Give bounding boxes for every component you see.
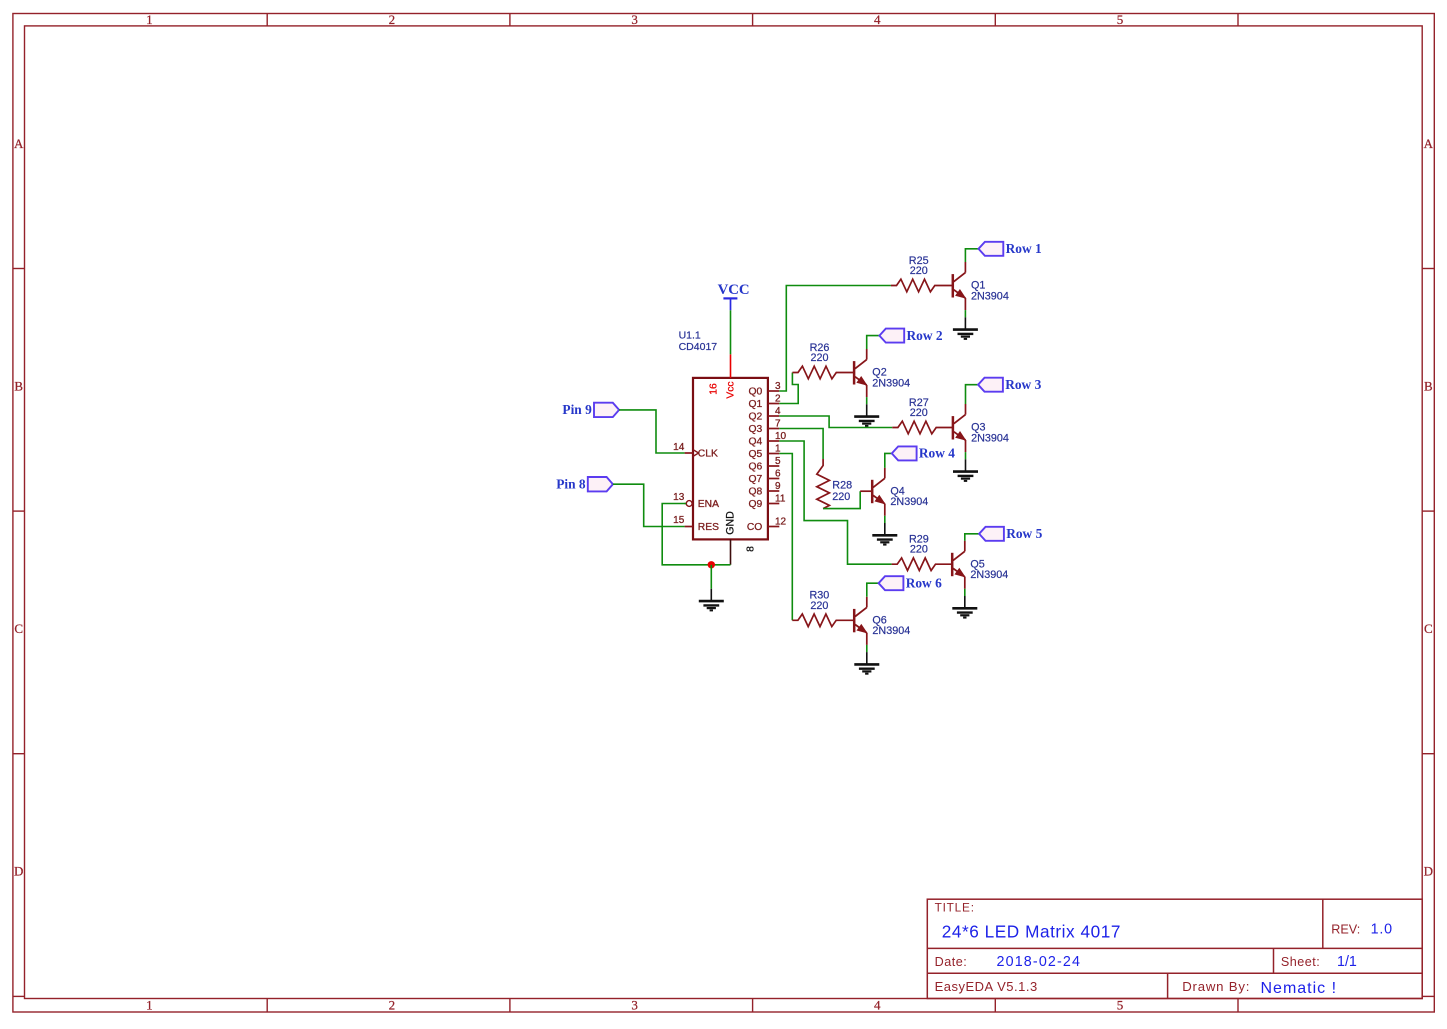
- ground at Q4 emitter: [872, 516, 897, 545]
- svg-text:VCC: VCC: [718, 282, 750, 298]
- svg-text:5: 5: [1117, 997, 1124, 1012]
- pin 16 Vcc (top): [709, 354, 737, 398]
- VCC power symbol: [718, 282, 750, 311]
- svg-text:Sheet:: Sheet:: [1281, 955, 1320, 969]
- transistor Q2 2N3904: [854, 349, 910, 397]
- net flag Pin 9: [562, 402, 619, 417]
- resistor R30 220: [792, 590, 854, 627]
- svg-text:2: 2: [389, 12, 396, 27]
- transistor Q3 2N3904: [953, 404, 1009, 452]
- net flag Row 1: [979, 241, 1042, 256]
- svg-text:Pin 8: Pin 8: [556, 476, 586, 491]
- svg-text:13: 13: [673, 492, 685, 503]
- wire Q0 to R25: [779, 286, 891, 392]
- wire Q3 collector to Row 3 flag: [966, 385, 979, 404]
- svg-text:8: 8: [745, 546, 756, 552]
- junction ground net: [708, 561, 715, 568]
- svg-text:2N3904: 2N3904: [971, 290, 1009, 302]
- svg-text:ENA: ENA: [698, 499, 719, 510]
- svg-text:Vcc: Vcc: [726, 381, 737, 398]
- transistor Q6 2N3904: [854, 597, 910, 645]
- svg-text:Row 6: Row 6: [906, 575, 942, 590]
- svg-text:EasyEDA V5.1.3: EasyEDA V5.1.3: [935, 979, 1038, 994]
- title block: [927, 899, 1422, 998]
- svg-text:Q2: Q2: [749, 412, 763, 423]
- svg-text:2: 2: [389, 997, 396, 1012]
- svg-text:Q5: Q5: [749, 449, 763, 460]
- svg-text:A: A: [1424, 136, 1434, 151]
- svg-text:1: 1: [146, 997, 153, 1012]
- wire Pin 9 to CLK: [619, 410, 685, 453]
- svg-text:2N3904: 2N3904: [872, 377, 910, 389]
- ground at Q6 emitter: [854, 645, 879, 674]
- svg-text:2N3904: 2N3904: [970, 569, 1008, 581]
- svg-text:3: 3: [631, 997, 638, 1012]
- svg-text:Q9: Q9: [749, 499, 763, 510]
- pin 10 Q4: [749, 431, 787, 447]
- wire Q1 to R26: [779, 373, 798, 404]
- svg-text:14: 14: [673, 442, 685, 453]
- wire Q3 to R28: [779, 429, 823, 460]
- pin 5 Q6: [749, 456, 781, 472]
- svg-text:Row 2: Row 2: [907, 328, 943, 343]
- ground at Q1 emitter: [953, 310, 978, 339]
- ground under IC: [699, 565, 724, 611]
- wire Q2 to R27: [779, 416, 892, 428]
- svg-text:Q6: Q6: [749, 462, 763, 473]
- svg-text:2N3904: 2N3904: [971, 432, 1009, 444]
- svg-text:D: D: [1424, 864, 1433, 879]
- pin 6 Q7: [749, 469, 781, 485]
- svg-text:5: 5: [1117, 12, 1124, 27]
- wire R28 to Q4 base: [823, 491, 860, 508]
- svg-text:220: 220: [810, 600, 828, 612]
- wire ENA to ground net: [662, 504, 730, 565]
- pin 14 CLK: [673, 442, 718, 460]
- svg-text:B: B: [14, 378, 23, 393]
- svg-text:Q7: Q7: [749, 474, 763, 485]
- net flag Row 2: [879, 328, 942, 343]
- svg-text:Q1: Q1: [749, 399, 763, 410]
- svg-text:220: 220: [910, 407, 928, 419]
- svg-text:Date:: Date:: [935, 955, 968, 969]
- wire Q5 collector to Row 5 flag: [965, 534, 979, 541]
- svg-text:2N3904: 2N3904: [890, 496, 928, 508]
- net flag Row 3: [978, 377, 1041, 392]
- svg-text:RES: RES: [698, 522, 719, 533]
- pin 4 Q2: [749, 406, 781, 422]
- op-amp U1.1 CD4017 IC body: [679, 330, 768, 540]
- svg-text:2N3904: 2N3904: [872, 625, 910, 637]
- pin 9 Q8: [749, 481, 781, 497]
- wire Q4 to R29: [779, 441, 891, 564]
- wire Q2 collector to Row 2 flag: [867, 336, 880, 349]
- wire Q6 collector to Row 6 flag: [867, 583, 879, 597]
- svg-text:REV:: REV:: [1331, 923, 1360, 937]
- transistor Q5 2N3904: [952, 541, 1008, 589]
- pin 2 Q1: [749, 394, 781, 410]
- svg-text:1/1: 1/1: [1337, 954, 1357, 970]
- svg-text:Row 4: Row 4: [919, 446, 955, 461]
- wire Q4 collector to Row 4 flag: [885, 453, 892, 467]
- svg-text:Q0: Q0: [749, 387, 763, 398]
- svg-text:2018-02-24: 2018-02-24: [997, 954, 1082, 970]
- svg-text:C: C: [1424, 621, 1433, 636]
- svg-text:CO: CO: [747, 522, 762, 533]
- svg-text:5: 5: [775, 456, 781, 467]
- pin 11 Q9: [749, 494, 786, 510]
- resistor R25 220: [891, 255, 953, 292]
- svg-text:11: 11: [775, 494, 786, 505]
- resistor R26 220: [792, 342, 854, 379]
- svg-text:220: 220: [910, 544, 928, 556]
- svg-text:24*6 LED Matrix 4017: 24*6 LED Matrix 4017: [942, 921, 1121, 941]
- svg-text:220: 220: [910, 265, 928, 277]
- svg-text:B: B: [1424, 378, 1433, 393]
- net flag Row 4: [892, 446, 955, 461]
- svg-text:CLK: CLK: [698, 449, 718, 460]
- pin 15 RES: [673, 515, 719, 533]
- svg-text:Q4: Q4: [749, 437, 763, 448]
- svg-text:220: 220: [832, 491, 850, 503]
- svg-text:C: C: [14, 621, 23, 636]
- svg-text:Drawn By:: Drawn By:: [1182, 979, 1250, 994]
- wire Pin 8 to RES: [613, 484, 685, 526]
- net flag Row 6: [879, 575, 942, 590]
- pin 12 CO: [747, 517, 787, 533]
- wire Q1 collector to Row 1 flag: [965, 249, 978, 262]
- svg-text:D: D: [14, 864, 23, 879]
- pin 1 Q5: [749, 444, 781, 460]
- svg-text:GND: GND: [725, 511, 737, 535]
- net flag Pin 8: [556, 476, 613, 491]
- svg-text:220: 220: [810, 352, 828, 364]
- svg-text:R28: R28: [832, 479, 852, 491]
- resistor R28 220: [817, 459, 852, 509]
- svg-text:TITLE:: TITLE:: [935, 901, 975, 915]
- ground at Q3 emitter: [953, 452, 978, 481]
- svg-text:Row 5: Row 5: [1006, 526, 1042, 541]
- svg-text:4: 4: [874, 997, 881, 1012]
- svg-text:Row 1: Row 1: [1006, 241, 1042, 256]
- transistor Q4 2N3904: [872, 468, 928, 516]
- wire VCC to pin 16: [730, 310, 732, 354]
- wire Q5 to R30: [779, 454, 792, 621]
- svg-text:Nematic !: Nematic !: [1261, 980, 1338, 997]
- svg-text:3: 3: [631, 12, 638, 27]
- svg-text:12: 12: [775, 517, 787, 528]
- svg-text:1.0: 1.0: [1371, 922, 1393, 938]
- svg-text:Q3: Q3: [749, 424, 763, 435]
- svg-text:A: A: [14, 136, 24, 151]
- transistor Q1 2N3904: [953, 262, 1009, 310]
- svg-text:4: 4: [874, 12, 881, 27]
- resistor R29 220: [892, 534, 953, 571]
- ground at Q5 emitter: [952, 589, 977, 618]
- pin 8 GND (bottom): [725, 511, 757, 565]
- svg-text:15: 15: [673, 515, 685, 526]
- svg-text:Pin 9: Pin 9: [562, 402, 592, 417]
- svg-text:Row 3: Row 3: [1005, 377, 1041, 392]
- svg-text:CD4017: CD4017: [679, 341, 718, 353]
- svg-text:1: 1: [146, 12, 153, 27]
- net flag Row 5: [979, 526, 1042, 541]
- svg-text:16: 16: [709, 383, 720, 395]
- svg-text:9: 9: [775, 481, 781, 492]
- svg-text:6: 6: [775, 469, 781, 480]
- ground at Q2 emitter: [854, 397, 879, 426]
- pin 13 ENA inverting bubble: [673, 492, 719, 510]
- pin 3 Q0: [749, 381, 781, 397]
- svg-text:Q8: Q8: [749, 487, 763, 498]
- resistor R27 220: [892, 397, 953, 434]
- svg-text:U1.1: U1.1: [679, 330, 701, 342]
- pin 7 Q3: [749, 419, 781, 435]
